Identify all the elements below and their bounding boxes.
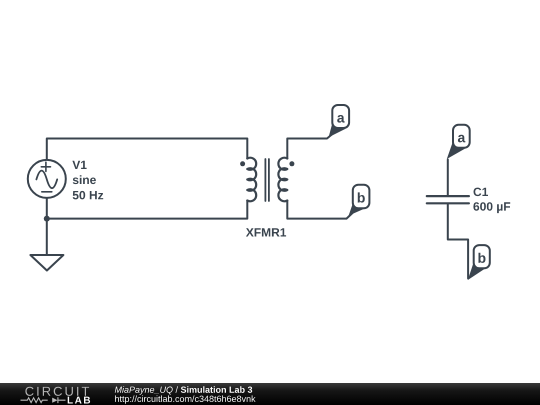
capacitor C1 branch: flag a tail wire <box>447 160 449 195</box>
label V1 <box>72 161 86 169</box>
node flag letter a (capacitor) <box>458 135 466 143</box>
label XFMR1 <box>246 228 286 236</box>
flag a (transformer) <box>329 119 346 137</box>
phase dot primary <box>240 161 245 166</box>
node flag letter a (transformer) <box>337 115 345 123</box>
flag b (capacitor) <box>468 260 485 280</box>
capacitor bottom wire to flag b <box>448 204 468 278</box>
logo squiggle resistor+diode <box>21 397 66 403</box>
transformer XFMR1 primary winding <box>247 158 256 202</box>
node junction <box>44 216 50 222</box>
wire top: V1 to XFMR1 primary <box>47 139 248 159</box>
label V1 frequency 50 Hz <box>73 191 104 200</box>
flag a (capacitor) <box>447 139 465 159</box>
transformer core <box>265 159 269 201</box>
node flag letter b (capacitor) <box>478 253 485 263</box>
voltage source V1 <box>28 160 66 198</box>
transformer XFMR1 secondary winding <box>278 158 287 202</box>
capacitor C1 plates <box>427 196 469 203</box>
wire bottom: V1 to XFMR1 primary <box>47 198 248 219</box>
ground <box>30 219 63 271</box>
node flag letter b (transformer) <box>358 192 365 202</box>
wire secondary bottom to flag b <box>287 201 352 219</box>
wire secondary top to flag a <box>287 134 333 159</box>
logo LAB <box>68 397 90 404</box>
footer title MiaPayne_UQ / Simulation Lab 3 <box>115 386 252 394</box>
footer url <box>115 395 256 403</box>
label V1 value sine <box>73 175 96 184</box>
phase dot secondary <box>289 161 294 166</box>
logo CIRCUIT <box>25 387 89 396</box>
label C1 value 600 uF <box>473 202 510 213</box>
flag b (transformer) <box>349 200 365 216</box>
label C1 <box>474 188 489 197</box>
